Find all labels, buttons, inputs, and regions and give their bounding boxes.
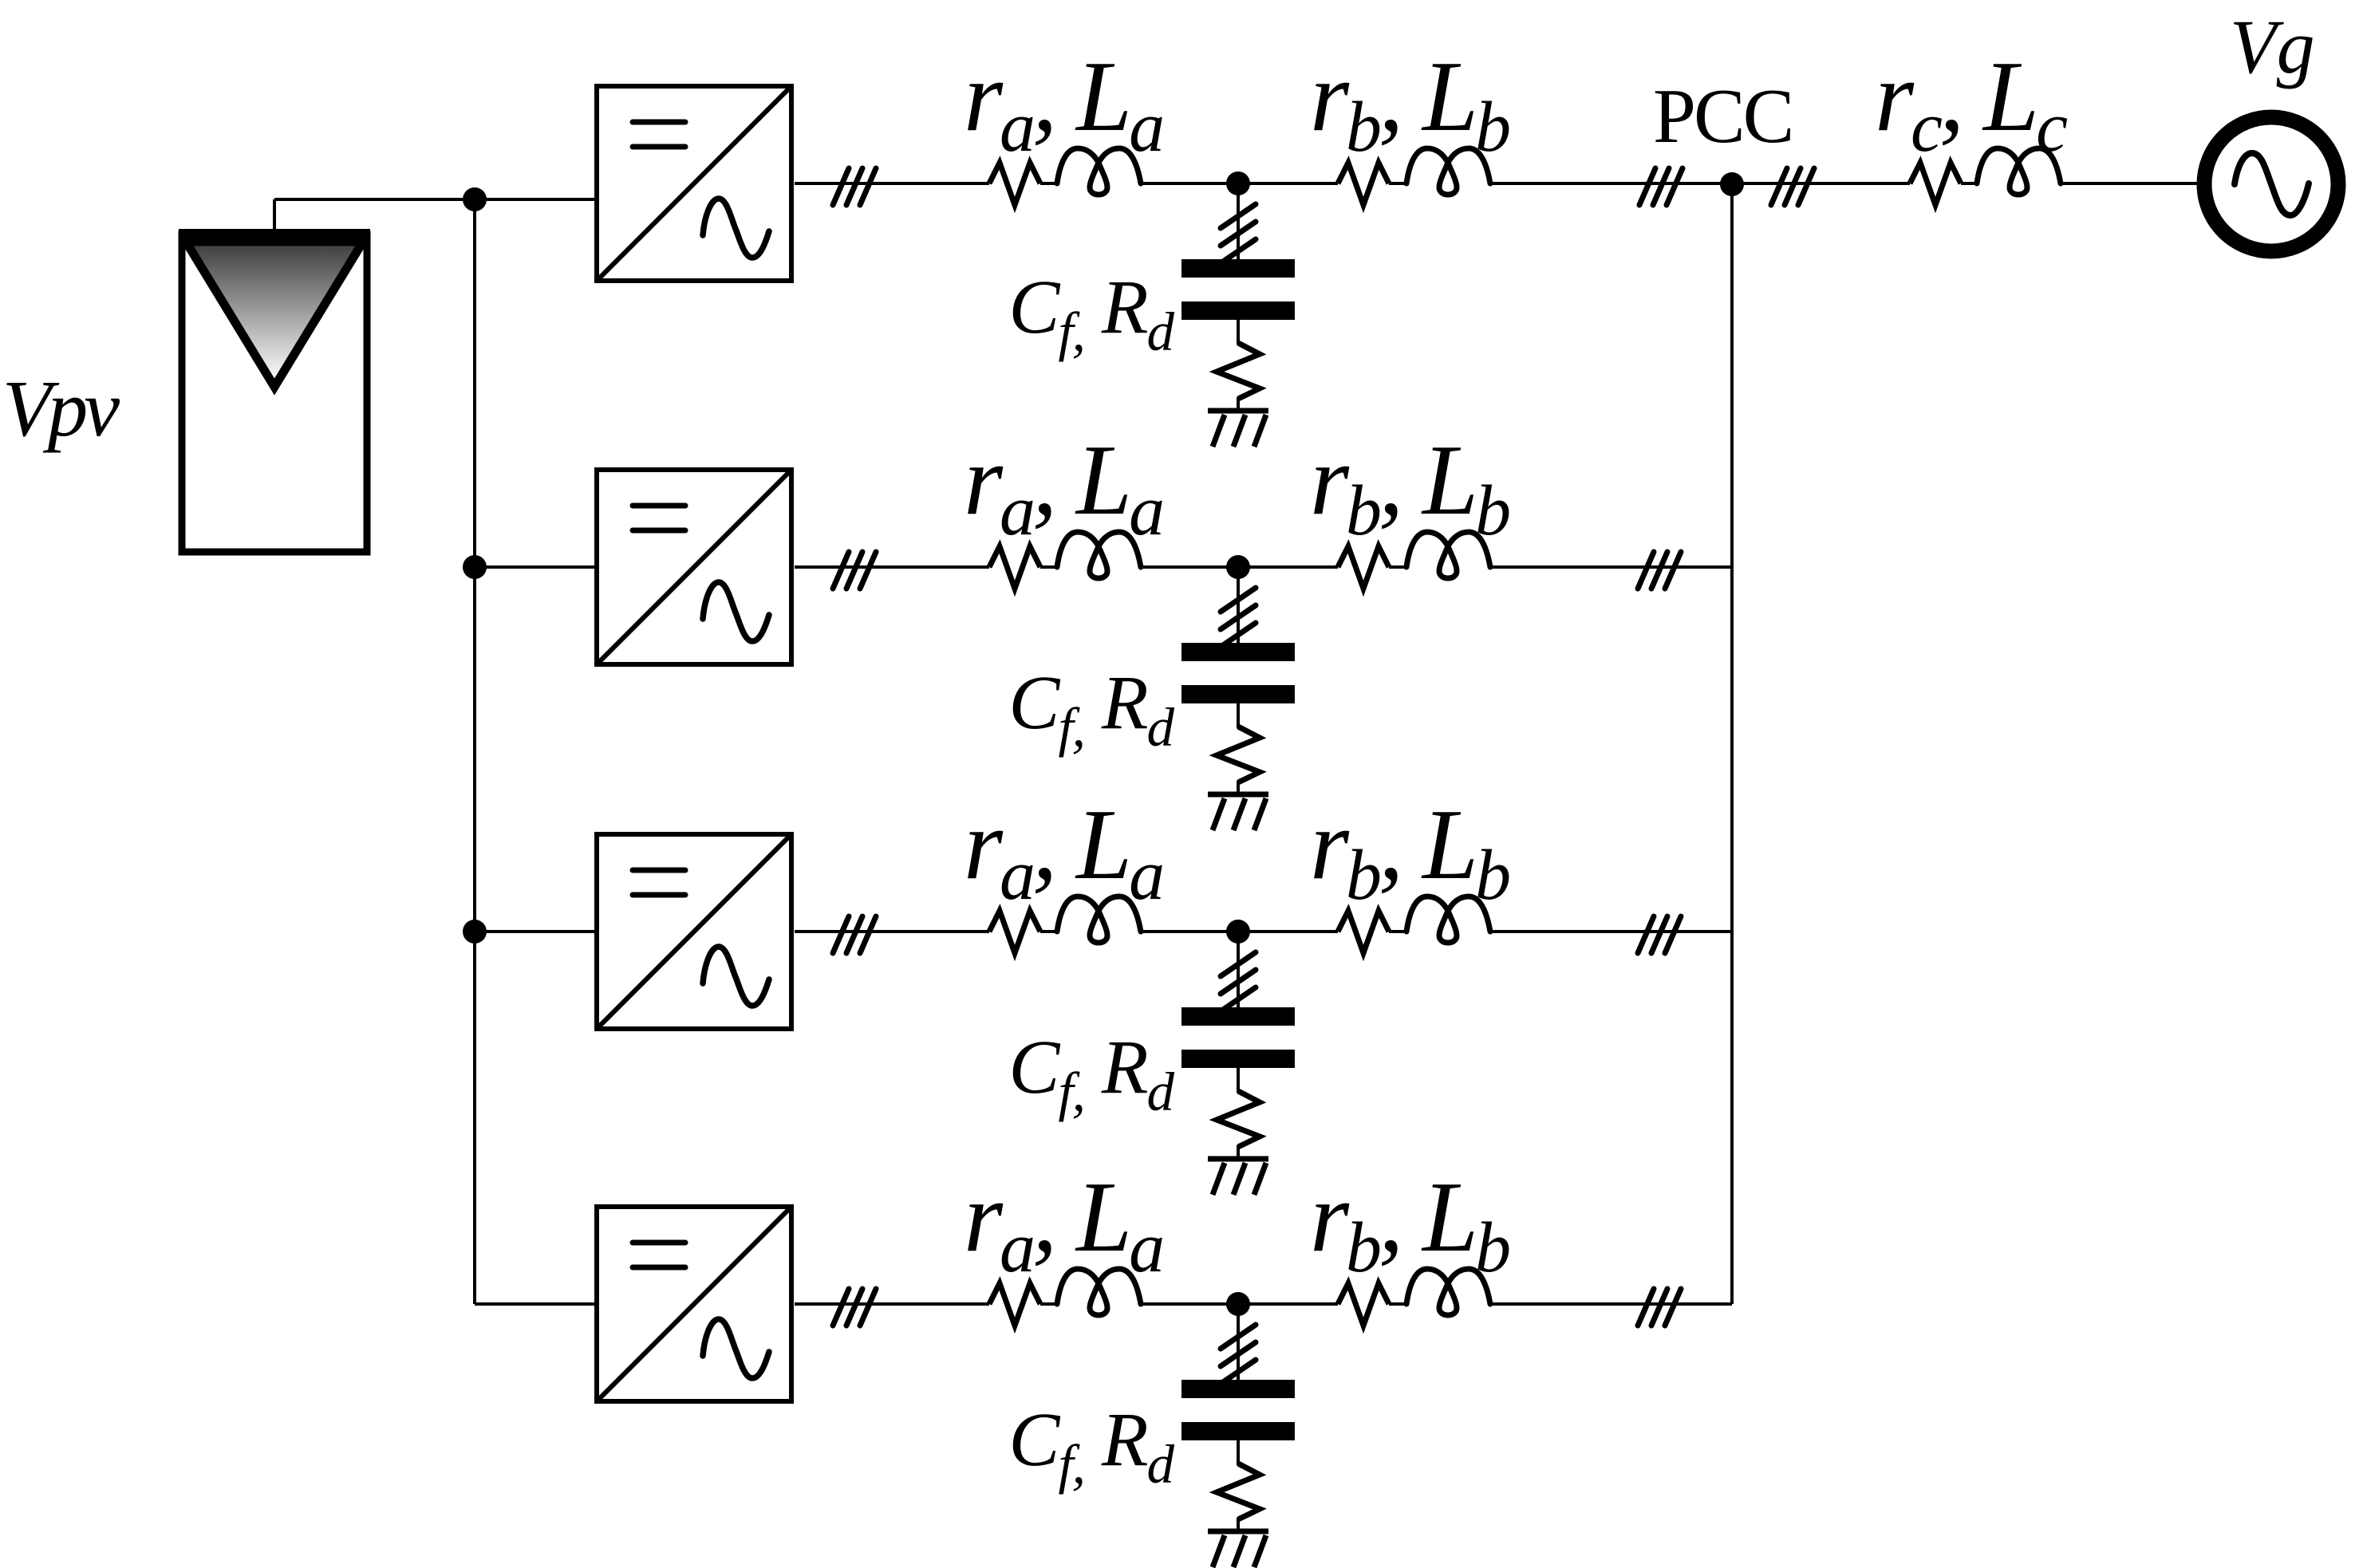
resistor rb row 3	[1338, 911, 1389, 953]
resistor Rd	[1217, 1464, 1260, 1519]
wire	[1040, 565, 1057, 569]
resistor ra row 4	[989, 1283, 1040, 1326]
wire	[1040, 1302, 1057, 1306]
resistor rb row 4	[1338, 1283, 1389, 1326]
shunt branch Cf Rd row 1	[1181, 183, 1295, 447]
label Cf, Rd row 3	[1008, 1024, 1174, 1122]
wire DC input inverter 3	[475, 930, 594, 933]
inductor La row 4	[1057, 1269, 1141, 1315]
node DC bus / inverter 1	[463, 187, 487, 211]
three-phase marks	[1221, 952, 1256, 976]
capacitor Cf	[1181, 259, 1295, 278]
resistor ra row 1	[989, 163, 1040, 205]
three-phase marks before PCC	[1639, 168, 1682, 205]
node filter row 1	[1226, 171, 1250, 195]
wire	[1237, 703, 1240, 728]
wire	[1237, 932, 1240, 1008]
wire inverter 3 output	[795, 930, 989, 933]
wire	[1237, 1304, 1240, 1381]
inverter U1	[597, 86, 791, 281]
three-phase marks row 3	[833, 916, 876, 953]
three-phase marks row 2	[833, 552, 876, 589]
wire inverter 4 output	[795, 1302, 989, 1306]
wire to AC bus row 2	[1490, 565, 1732, 569]
label rb, Lb row 3	[1310, 790, 1509, 915]
wire	[1389, 182, 1406, 185]
wire DC input inverter 4	[475, 1302, 594, 1306]
wire DC input inverter 1	[475, 198, 594, 201]
wire to Vg	[2061, 182, 2205, 185]
resistor ra row 2	[989, 546, 1040, 589]
inverter U2	[597, 470, 791, 664]
three-phase marks	[1221, 1325, 1256, 1349]
wire	[1237, 567, 1240, 644]
wire	[1237, 320, 1240, 345]
three-phase marks after PCC	[1771, 168, 1814, 205]
wire	[1237, 397, 1240, 411]
wire	[1237, 781, 1240, 794]
inverter U4	[597, 1207, 791, 1401]
inductor La row 3	[1057, 896, 1141, 943]
wire	[1389, 1302, 1406, 1306]
three-phase marks row 2 right	[1638, 552, 1681, 589]
three-phase marks row 1	[833, 168, 876, 205]
ground	[1208, 1156, 1268, 1162]
wire PV to bus	[274, 199, 475, 233]
wire DC input inverter 2	[475, 565, 594, 569]
ground	[1208, 792, 1268, 798]
wire	[1389, 565, 1406, 569]
three-phase marks row 3 right	[1638, 916, 1681, 953]
label ra, La row 4	[964, 1162, 1162, 1287]
inductor Lb row 4	[1406, 1269, 1490, 1315]
PV panel Vpv	[179, 229, 370, 552]
wire to filter node row 4	[1141, 1302, 1338, 1306]
shunt branch Cf Rd row 3	[1181, 932, 1295, 1195]
wire	[1237, 1440, 1240, 1465]
source Vg	[2204, 117, 2338, 251]
node DC bus / inverter 3	[463, 920, 487, 944]
wire	[1389, 930, 1406, 933]
inductor La row 2	[1057, 532, 1141, 578]
wire inverter 2 output	[795, 565, 989, 569]
label ra, La row 2	[964, 425, 1162, 550]
inductor Lc	[1977, 148, 2061, 195]
shunt branch Cf Rd row 2	[1181, 567, 1295, 830]
wire DC bus	[473, 199, 476, 1304]
svg-text:PCC: PCC	[1653, 73, 1792, 159]
wire	[1237, 1068, 1240, 1093]
capacitor Cf	[1181, 1007, 1295, 1026]
node filter row 2	[1226, 555, 1250, 579]
wire inverter 1 output	[795, 182, 989, 185]
wire AC bus	[1730, 184, 1734, 1304]
label rb, Lb row 4	[1310, 1162, 1509, 1287]
wire	[1237, 1518, 1240, 1531]
inverter U3	[597, 834, 791, 1029]
label rb, Lb row 2	[1310, 425, 1509, 550]
three-phase marks	[1221, 588, 1256, 612]
wire to AC bus row 4	[1490, 1302, 1732, 1306]
label rb, Lb row 1	[1310, 41, 1509, 167]
three-phase marks row 4 right	[1638, 1289, 1681, 1326]
svg-text:Vg: Vg	[2230, 4, 2315, 89]
capacitor Cf	[1181, 643, 1295, 661]
inductor Lb row 2	[1406, 532, 1490, 578]
wire to AC bus row 3	[1490, 930, 1732, 933]
three-phase marks	[1221, 204, 1256, 228]
inductor La row 1	[1057, 148, 1141, 195]
label ra, La row 3	[964, 790, 1162, 915]
node filter row 3	[1226, 920, 1250, 944]
wire to filter node row 2	[1141, 565, 1338, 569]
resistor Rd	[1217, 1091, 1260, 1147]
wire	[1040, 930, 1057, 933]
label Cf, Rd row 4	[1008, 1397, 1174, 1495]
node DC bus / inverter 2	[463, 555, 487, 579]
label Cf, Rd row 2	[1008, 660, 1174, 758]
wire	[1040, 182, 1057, 185]
resistor rb row 1	[1338, 163, 1389, 205]
wire	[1237, 1145, 1240, 1159]
resistor Rd	[1217, 727, 1260, 782]
wire to filter node row 1	[1141, 182, 1338, 185]
resistor rb row 2	[1338, 546, 1389, 589]
capacitor Cf	[1181, 1380, 1295, 1398]
ground	[1208, 408, 1268, 414]
wire to filter node row 3	[1141, 930, 1338, 933]
wire	[1961, 182, 1977, 185]
label Cf, Rd row 1	[1008, 264, 1174, 362]
wire PCC to grid	[1732, 182, 1910, 185]
label rc, Lc	[1875, 41, 2067, 167]
node filter row 4	[1226, 1292, 1250, 1316]
label ra, La row 1	[964, 41, 1162, 167]
resistor ra row 3	[989, 911, 1040, 953]
node PCC	[1720, 172, 1744, 196]
inductor Lb row 1	[1406, 148, 1490, 195]
svg-text:Vpv: Vpv	[2, 364, 120, 453]
wire	[1237, 183, 1240, 260]
wire to PCC	[1490, 182, 1732, 185]
shunt branch Cf Rd row 4	[1181, 1304, 1295, 1567]
resistor rc	[1910, 163, 1961, 205]
inductor Lb row 3	[1406, 896, 1490, 943]
three-phase marks row 4	[833, 1289, 876, 1326]
resistor Rd	[1217, 343, 1260, 399]
ground	[1208, 1529, 1268, 1535]
